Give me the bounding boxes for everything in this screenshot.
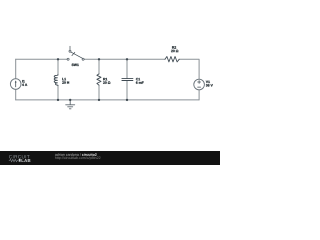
capacitor C1 bbox=[122, 79, 133, 81]
node L1 bottom bbox=[57, 99, 59, 101]
wire V1 branch bottom bbox=[198, 90, 200, 100]
label V1 bbox=[206, 81, 210, 83]
logo LAB bbox=[21, 159, 30, 162]
node C1 top bbox=[126, 58, 128, 60]
wire R1 branch bbox=[98, 59, 100, 100]
wire top middle bbox=[84, 58, 165, 60]
node ground bbox=[69, 99, 71, 101]
value 20 H bbox=[62, 81, 69, 83]
inductor L1 bbox=[54, 75, 58, 86]
node L1 top bbox=[57, 58, 59, 60]
node R1 bottom bbox=[98, 99, 100, 101]
switch SW1 bbox=[67, 46, 84, 60]
label L1 bbox=[62, 78, 66, 80]
resistor R2 bbox=[165, 57, 179, 62]
bottom attribution bar bbox=[0, 151, 220, 165]
label I1 bbox=[22, 80, 25, 82]
wire bottom bbox=[16, 99, 199, 101]
value 20 Ohm (R2) bbox=[171, 50, 178, 52]
label SW1 bbox=[72, 64, 79, 66]
voltage source V1 bbox=[194, 79, 205, 90]
label R2 bbox=[172, 46, 176, 48]
ground bbox=[66, 100, 75, 109]
wire top right bbox=[179, 59, 199, 79]
attribution line 2 bbox=[55, 156, 100, 159]
node R1 top bbox=[98, 58, 100, 60]
wire left branch bbox=[15, 59, 17, 100]
value 6 mF bbox=[136, 81, 144, 83]
label R1 bbox=[103, 78, 107, 80]
wire top left bbox=[16, 58, 67, 60]
current source I1 bbox=[10, 79, 21, 90]
wire C1 branch bbox=[126, 59, 128, 100]
label C1 bbox=[136, 78, 140, 80]
value 36 V bbox=[206, 84, 213, 86]
junction dots bbox=[57, 58, 128, 101]
value 4 A bbox=[22, 84, 27, 86]
value 20 Ohm (R1) bbox=[103, 81, 110, 83]
resistor R1 bbox=[97, 74, 101, 85]
logo resistor zigzag bbox=[9, 159, 18, 161]
attribution line 1 bbox=[55, 153, 81, 156]
logo CIRCUIT bbox=[9, 155, 30, 158]
node C1 bottom bbox=[126, 99, 128, 101]
wire inductor branch bbox=[57, 59, 59, 100]
